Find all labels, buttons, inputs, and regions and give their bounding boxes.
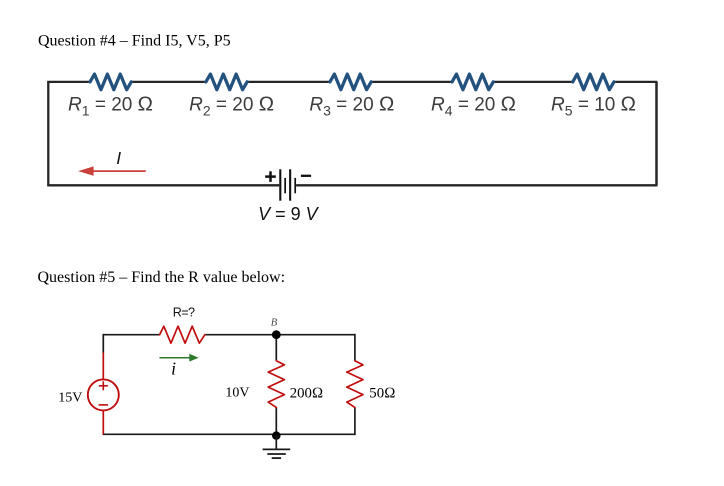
- wire Q5 left vertical black: [102, 334, 104, 353]
- wire left edge Q4: [47, 82, 49, 185]
- battery plus marker: [265, 171, 276, 182]
- svg-text:10V: 10V: [225, 386, 249, 401]
- wire Q5 right vertical top stub: [354, 334, 356, 361]
- current arrow i: [159, 354, 198, 362]
- resistor 200ohm: [268, 361, 284, 408]
- svg-text:R3 = 20 Ω: R3 = 20 Ω: [309, 93, 394, 119]
- svg-text:R2 = 20 Ω: R2 = 20 Ω: [189, 93, 274, 119]
- battery V1 plate tall left: [279, 169, 281, 200]
- svg-text:I: I: [116, 148, 121, 168]
- resistor R2: [206, 74, 247, 90]
- wire bottom left of battery: [47, 184, 279, 186]
- wire top segment 3: [247, 81, 330, 83]
- node bottom junction: [272, 431, 281, 440]
- wire top segment 1: [47, 81, 90, 83]
- wire Q5 top left segment: [103, 334, 159, 336]
- current arrow I: [78, 166, 146, 175]
- resistor R1: [90, 74, 131, 90]
- svg-text:i: i: [171, 359, 176, 379]
- wire top segment 6: [614, 81, 658, 83]
- resistor R4: [452, 74, 493, 90]
- wire top segment 4: [371, 81, 452, 83]
- battery minus marker: [301, 175, 311, 177]
- resistor 50ohm: [347, 361, 363, 408]
- svg-text:B: B: [271, 318, 278, 329]
- wire Q5 middle branch top stub: [275, 335, 277, 361]
- wire Q5 right vertical bottom stub: [354, 408, 356, 436]
- svg-text:R5 = 10 Ω: R5 = 10 Ω: [551, 93, 636, 119]
- wire bottom right of battery: [296, 184, 657, 186]
- voltage source V 15V: [88, 379, 119, 410]
- wire Q5 top middle segment: [205, 334, 276, 336]
- resistor R unknown: [160, 326, 205, 343]
- wire top segment 5: [493, 81, 573, 83]
- resistor R3: [330, 74, 371, 90]
- wire Q5 top right segment: [276, 334, 355, 336]
- ground: [263, 436, 291, 459]
- svg-text:V = 9 V: V = 9 V: [258, 204, 320, 224]
- wire right edge Q4: [655, 82, 658, 185]
- svg-text:200Ω: 200Ω: [290, 385, 324, 401]
- wire Q5 middle branch bottom stub: [275, 408, 277, 435]
- wire Q5 bottom: [103, 433, 355, 435]
- wire top segment 2: [131, 81, 206, 83]
- svg-text:Question #5 – Find the R value: Question #5 – Find the R value below:: [38, 269, 286, 286]
- svg-text:R1 = 20 Ω: R1 = 20 Ω: [68, 93, 153, 119]
- node B: [272, 330, 281, 339]
- svg-text:50Ω: 50Ω: [369, 385, 395, 401]
- wire Q5 left vertical red lower: [102, 410, 104, 435]
- wire Q5 left vertical red upper: [102, 353, 104, 380]
- resistor R5: [573, 74, 614, 90]
- battery V1 plate short right: [294, 178, 296, 193]
- svg-text:15V: 15V: [58, 390, 82, 405]
- svg-text:R4 = 20 Ω: R4 = 20 Ω: [431, 93, 516, 119]
- svg-text:Question #4 – Find I5, V5, P5: Question #4 – Find I5, V5, P5: [38, 33, 231, 50]
- svg-text:R=?: R=?: [173, 305, 195, 319]
- battery V1 plate tall right: [289, 169, 291, 200]
- battery V1 plate short left: [284, 178, 286, 193]
